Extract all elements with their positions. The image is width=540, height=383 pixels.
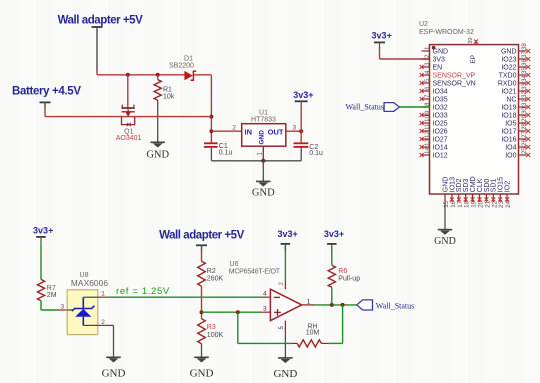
svg-text:3: 3 bbox=[61, 304, 65, 311]
svg-text:0.1u: 0.1u bbox=[309, 150, 323, 157]
svg-text:GND: GND bbox=[190, 367, 214, 379]
svg-text:OUT: OUT bbox=[268, 127, 284, 136]
svg-text:3V3: 3V3 bbox=[433, 57, 446, 64]
svg-text:35: 35 bbox=[521, 67, 528, 74]
svg-text:IO33: IO33 bbox=[433, 113, 448, 120]
svg-text:0.1u: 0.1u bbox=[219, 150, 233, 157]
svg-text:AO3401: AO3401 bbox=[116, 135, 142, 142]
svg-text:2: 2 bbox=[232, 125, 236, 132]
svg-text:27: 27 bbox=[521, 131, 528, 138]
svg-text:3: 3 bbox=[424, 62, 431, 66]
svg-text:RXD0: RXD0 bbox=[498, 81, 517, 88]
svg-text:3: 3 bbox=[293, 125, 297, 132]
svg-text:MAX6006: MAX6006 bbox=[71, 278, 108, 288]
svg-text:34: 34 bbox=[521, 75, 528, 82]
svg-text:6: 6 bbox=[424, 86, 431, 90]
svg-text:2: 2 bbox=[101, 319, 105, 326]
svg-text:10k: 10k bbox=[163, 93, 175, 100]
svg-text:3v3+: 3v3+ bbox=[324, 229, 344, 239]
svg-text:8: 8 bbox=[424, 102, 431, 106]
svg-text:GND: GND bbox=[146, 150, 169, 161]
svg-text:3v3+: 3v3+ bbox=[293, 90, 313, 100]
svg-text:36: 36 bbox=[521, 59, 528, 66]
svg-text:29: 29 bbox=[521, 115, 528, 122]
svg-text:7: 7 bbox=[424, 94, 431, 98]
svg-text:26: 26 bbox=[521, 139, 528, 146]
svg-text:Wall_Status: Wall_Status bbox=[346, 103, 384, 112]
svg-text:IO4: IO4 bbox=[505, 145, 516, 152]
svg-text:GND: GND bbox=[252, 187, 275, 198]
svg-text:2M: 2M bbox=[47, 292, 57, 299]
svg-text:38: 38 bbox=[521, 43, 528, 50]
svg-text:ref = 1.25V: ref = 1.25V bbox=[116, 286, 170, 297]
svg-text:13: 13 bbox=[424, 139, 431, 146]
svg-text:IO5: IO5 bbox=[505, 121, 516, 128]
svg-text:TXD0: TXD0 bbox=[499, 73, 517, 80]
svg-text:28: 28 bbox=[521, 123, 528, 130]
svg-text:SENSOR_VP: SENSOR_VP bbox=[433, 73, 476, 80]
svg-text:IO27: IO27 bbox=[433, 137, 448, 144]
svg-text:Wall_Status: Wall_Status bbox=[376, 301, 414, 310]
svg-text:25: 25 bbox=[521, 147, 528, 154]
svg-text:Pull-up: Pull-up bbox=[338, 276, 360, 283]
svg-text:EN: EN bbox=[433, 65, 443, 72]
svg-text:IO17: IO17 bbox=[501, 129, 516, 136]
svg-text:GND: GND bbox=[102, 367, 126, 379]
svg-text:30: 30 bbox=[521, 107, 528, 114]
svg-text:IO21: IO21 bbox=[501, 89, 516, 96]
svg-text:IO23: IO23 bbox=[501, 57, 516, 64]
svg-text:R6: R6 bbox=[338, 268, 347, 275]
svg-text:10M: 10M bbox=[306, 330, 320, 337]
svg-text:100K: 100K bbox=[207, 332, 224, 339]
svg-text:14: 14 bbox=[424, 147, 431, 154]
svg-text:Battery +4.5V: Battery +4.5V bbox=[12, 86, 81, 98]
svg-text:SENSOR_VN: SENSOR_VN bbox=[433, 81, 476, 88]
svg-text:GND: GND bbox=[434, 236, 456, 247]
svg-text:33: 33 bbox=[521, 83, 528, 90]
svg-text:4: 4 bbox=[424, 70, 431, 74]
svg-text:IO0: IO0 bbox=[505, 153, 516, 160]
svg-text:1: 1 bbox=[424, 46, 431, 50]
svg-text:3v3+: 3v3+ bbox=[33, 226, 53, 236]
svg-text:U6: U6 bbox=[230, 261, 239, 268]
svg-text:IO18: IO18 bbox=[501, 113, 516, 120]
svg-text:NC: NC bbox=[506, 97, 516, 104]
svg-text:R2: R2 bbox=[207, 268, 216, 275]
svg-text:R1: R1 bbox=[163, 86, 172, 93]
svg-text:Wall adapter +5V: Wall adapter +5V bbox=[58, 15, 144, 27]
svg-text:12: 12 bbox=[424, 131, 431, 138]
svg-text:4: 4 bbox=[263, 291, 267, 298]
svg-text:MCP6546T-E/OT: MCP6546T-E/OT bbox=[229, 268, 281, 275]
svg-text:260K: 260K bbox=[207, 276, 224, 283]
svg-text:Wall adapter +5V: Wall adapter +5V bbox=[159, 230, 245, 242]
svg-text:GND: GND bbox=[433, 49, 449, 56]
svg-text:GND: GND bbox=[258, 130, 265, 145]
svg-text:SB2200: SB2200 bbox=[169, 62, 194, 69]
svg-text:IO12: IO12 bbox=[433, 153, 448, 160]
svg-text:GND: GND bbox=[501, 49, 517, 56]
svg-text:3v3+: 3v3+ bbox=[372, 31, 392, 41]
svg-text:GND: GND bbox=[273, 368, 297, 380]
svg-text:1: 1 bbox=[307, 298, 311, 305]
svg-text:39: 39 bbox=[468, 38, 474, 44]
svg-text:IO19: IO19 bbox=[501, 105, 516, 112]
svg-text:5: 5 bbox=[424, 78, 431, 82]
svg-text:11: 11 bbox=[424, 123, 431, 130]
svg-text:32: 32 bbox=[521, 91, 528, 98]
svg-text:IN: IN bbox=[245, 127, 253, 136]
svg-text:IO25: IO25 bbox=[433, 121, 448, 128]
svg-text:3v3+: 3v3+ bbox=[277, 229, 297, 239]
svg-text:31: 31 bbox=[521, 99, 528, 106]
svg-text:1: 1 bbox=[101, 291, 105, 298]
svg-text:10: 10 bbox=[424, 115, 431, 122]
svg-text:IO26: IO26 bbox=[433, 129, 448, 136]
svg-text:HT7833: HT7833 bbox=[251, 116, 276, 123]
svg-text:R3: R3 bbox=[207, 324, 216, 331]
svg-text:IO2: IO2 bbox=[505, 181, 512, 192]
svg-text:IO14: IO14 bbox=[433, 145, 448, 152]
svg-text:9: 9 bbox=[424, 110, 431, 114]
svg-text:IO16: IO16 bbox=[501, 137, 516, 144]
svg-text:ESP-WROOM-32: ESP-WROOM-32 bbox=[419, 29, 474, 36]
svg-text:3: 3 bbox=[263, 306, 267, 313]
svg-text:IO32: IO32 bbox=[433, 105, 448, 112]
svg-text:IO34: IO34 bbox=[433, 89, 448, 96]
svg-text:IO22: IO22 bbox=[501, 65, 516, 72]
svg-text:EP: EP bbox=[470, 55, 477, 64]
svg-text:37: 37 bbox=[521, 51, 528, 58]
svg-text:IO35: IO35 bbox=[433, 97, 448, 104]
svg-text:2: 2 bbox=[424, 54, 431, 58]
svg-text:U2: U2 bbox=[419, 21, 428, 28]
